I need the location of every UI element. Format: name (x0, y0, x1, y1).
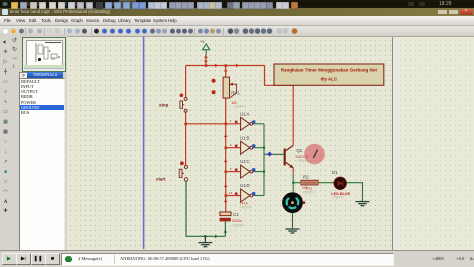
inverter U1:A (230, 111, 264, 130)
wire R2 to D1 (318, 182, 334, 184)
object selector panel (11, 36, 67, 250)
wire speaker to ground (292, 213, 294, 229)
wire power drop (204, 55, 208, 66)
svg-text:R2: R2 (303, 174, 309, 179)
ground bottom (199, 236, 213, 246)
inverter U1:D (226, 183, 264, 202)
resistor R2 (301, 180, 318, 185)
cursor highlight (304, 144, 325, 165)
capacitor C1 (220, 212, 231, 221)
button stop (180, 94, 188, 113)
junction bus C (263, 171, 265, 173)
junction mid gate C (225, 170, 228, 173)
wire start to ground rail (186, 182, 225, 239)
title text box (274, 64, 384, 85)
led D1 (334, 177, 347, 190)
svg-text:<TEXT>: <TEXT> (302, 190, 314, 194)
sheet border (143, 37, 145, 250)
wire mid node vertical (224, 66, 228, 212)
svg-text:U1:D: U1:D (240, 183, 250, 188)
svg-text:LS1: LS1 (306, 186, 312, 190)
top windows taskbar (0, 0, 474, 8)
svg-text:U1:C: U1:C (240, 159, 250, 164)
svg-text:3: 3 (230, 143, 232, 147)
svg-text:13: 13 (229, 191, 233, 195)
toolbar (0, 26, 474, 37)
wire emitter to R2 (293, 182, 301, 184)
junction emitter node (292, 182, 294, 184)
svg-text:5: 5 (230, 167, 232, 171)
wire collector (265, 66, 294, 146)
wire output bus (263, 124, 265, 196)
ground speaker (286, 229, 300, 233)
junction ground tap (204, 235, 206, 237)
power terminal +5 (200, 40, 210, 55)
svg-text:<TEXT>: <TEXT> (332, 196, 344, 200)
potentiometer RV1 (212, 77, 237, 98)
svg-text:Q1: Q1 (296, 148, 302, 153)
node base state diamond (267, 152, 272, 157)
junction bus B (263, 147, 265, 149)
junction power/rail (205, 64, 208, 67)
schematic canvases (67, 37, 391, 250)
svg-text:<TEXT>: <TEXT> (233, 105, 245, 109)
wire top rail (186, 64, 265, 68)
svg-text:1: 1 (230, 119, 232, 123)
wire stop to node (185, 112, 187, 165)
wire node to gate A (186, 123, 241, 125)
inverter U1:B (226, 135, 264, 154)
ground right (356, 202, 370, 206)
left mode toolbar (0, 36, 12, 250)
svg-text:D1: D1 (332, 170, 338, 175)
svg-text:RV1: RV1 (231, 91, 240, 96)
svg-text:C1: C1 (233, 212, 239, 217)
junction node (184, 123, 187, 126)
svg-text:U1:B: U1:B (240, 135, 250, 140)
svg-text:<TEXT>: <TEXT> (240, 206, 252, 210)
wire D1 to ground (347, 183, 363, 202)
svg-text:Rangkaian Timer Menggunakan Ge: Rangkaian Timer Menggunakan Gerbang Not (281, 67, 378, 72)
transistor Q1 (284, 145, 294, 168)
svg-text:start: start (156, 176, 166, 181)
junction node/mid (225, 123, 228, 126)
svg-text:U1:A: U1:A (240, 111, 250, 116)
junction mid gate D (225, 194, 228, 197)
wire emitter to speaker (292, 183, 294, 193)
menu bar (0, 16, 474, 26)
wire base tap (264, 153, 284, 155)
application title bar (0, 8, 474, 16)
speaker LS1 (282, 192, 305, 213)
inverter U1:C (226, 159, 264, 178)
button start (179, 161, 188, 181)
status bar (0, 250, 474, 267)
svg-text:+5: +5 (200, 40, 204, 44)
junction mid gate B (225, 147, 228, 150)
junction RV1/rail (225, 64, 228, 67)
wire emitter (292, 168, 294, 183)
svg-text:2200u: 2200u (232, 219, 242, 223)
svg-text:stop: stop (159, 102, 169, 107)
svg-text:<TEXT>: <TEXT> (232, 224, 244, 228)
wire stop branch (185, 66, 187, 98)
wire C1 to ground rail (224, 222, 228, 237)
svg-text:diy ALC: diy ALC (320, 77, 338, 82)
